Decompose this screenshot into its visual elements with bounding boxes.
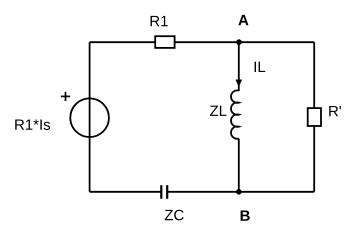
label R1*Is — [15, 119, 50, 129]
wire arrow tip to coil top — [238, 86, 240, 92]
source R1*Is — [70, 98, 109, 137]
wire right branch — [313, 42, 315, 192]
label ZL — [210, 106, 227, 116]
wire bottom rail right of ZC — [167, 191, 314, 193]
capacitor ZC left plate — [160, 185, 162, 199]
label A — [238, 15, 248, 25]
wire middle branch from node A down — [238, 42, 240, 81]
wire top rail (R1 to node A and on to right corner) — [174, 41, 314, 43]
node B — [236, 189, 242, 195]
label ZC — [165, 210, 184, 221]
wire coil bottom to node B — [238, 139, 240, 192]
wire bottom rail left of ZC — [90, 191, 162, 193]
resistor R' — [308, 108, 321, 126]
label IL — [255, 62, 266, 72]
current arrow IL — [236, 80, 242, 87]
label R-prime — [329, 106, 341, 116]
resistor R1 — [155, 36, 174, 48]
node A — [236, 39, 242, 45]
plus sign of source — [61, 92, 70, 101]
label R1 — [151, 16, 168, 26]
wire left branch — [89, 42, 91, 192]
inductor ZL — [231, 90, 239, 138]
label B — [241, 210, 250, 220]
capacitor ZC right plate — [166, 185, 168, 199]
wire top rail (left segment to R1) — [90, 41, 156, 43]
